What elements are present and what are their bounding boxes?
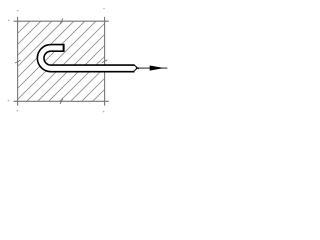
corner extension dot, top-left horizontal — [8, 19, 10, 21]
wall top edge — [14, 20, 109, 22]
arrow leader line — [136, 67, 168, 69]
corner extension dot, bottom-left horizontal — [8, 100, 10, 102]
corner extension dot, bottom-left vertical — [17, 110, 19, 112]
corner extension dot, top-right vertical — [103, 8, 105, 10]
midpoint tick, bottom edge — [60, 99, 63, 105]
midpoint tick, left edge — [15, 60, 21, 63]
bar end taper, lower diagonal — [133, 68, 137, 72]
rebar hook: black outer body (stroked centerline) — [41, 48, 135, 69]
wall bottom edge — [14, 100, 109, 102]
arrowhead — [150, 66, 162, 70]
rebar hook: white core — [41, 48, 135, 69]
bar end taper, upper diagonal — [134, 65, 139, 69]
midpoint tick, top edge — [60, 19, 63, 25]
midpoint tick, right edge — [102, 60, 108, 63]
corner extension dot, top-left vertical — [17, 10, 19, 12]
wall left edge — [17, 17, 19, 106]
corner extension dot, bottom-right vertical — [103, 111, 105, 113]
wall right edge — [104, 17, 106, 106]
wall section hatch (45° lines) — [0, 0, 110, 110]
